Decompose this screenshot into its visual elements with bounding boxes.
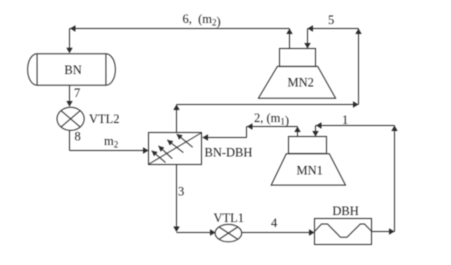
wire stream 4 [242, 232, 315, 234]
wire BN-DBH top riser [176, 105, 178, 133]
separator MN1 [271, 137, 345, 186]
heat-exchanger BN-DBH [149, 133, 253, 165]
wire stream 5 horizontal [308, 28, 359, 30]
wire stream 5 drop into MN2 [307, 29, 309, 49]
svg-text:BN-DBH: BN-DBH [205, 146, 253, 160]
svg-text:8: 8 [75, 130, 81, 144]
wire stream 1 riser [394, 126, 396, 232]
wire MN1 vapor riser [297, 127, 299, 137]
wire stream 5 riser [358, 29, 360, 105]
valve VTL2 [57, 107, 120, 130]
svg-text:6, (m2): 6, (m2) [183, 12, 221, 29]
svg-text:4: 4 [271, 216, 278, 230]
wire stream 2 into BN-DBH [203, 137, 247, 139]
wire stream 1 drop into MN1 [315, 126, 317, 137]
heater DBH [314, 204, 372, 245]
svg-text:VTL2: VTL2 [89, 112, 120, 126]
vessel BN [28, 54, 116, 85]
wire BN-DBH overhead line [177, 104, 359, 106]
valve VTL1 [214, 211, 245, 242]
svg-text:BN: BN [64, 63, 81, 77]
wire stream 2 horizontal upper [247, 126, 298, 128]
svg-text:VTL1: VTL1 [214, 211, 245, 225]
wire stream 2 step [246, 127, 248, 138]
svg-text:5: 5 [328, 13, 334, 27]
svg-text:MN1: MN1 [297, 164, 323, 178]
svg-text:7: 7 [74, 86, 80, 100]
svg-text:m2: m2 [104, 134, 118, 150]
svg-text:1: 1 [342, 113, 348, 127]
wire MN2 vapor outlet riser [289, 29, 291, 49]
wire stream 3 drop [176, 165, 178, 232]
wire stream 6 drop to BN [69, 29, 71, 53]
wire stream 3 horizontal [177, 232, 216, 234]
separator MN2 [258, 49, 335, 99]
svg-text:2, (m1): 2, (m1) [254, 111, 289, 128]
wire DBH outlet [372, 231, 395, 233]
wire stream 7 [69, 86, 71, 107]
wire stream 8 drop [69, 131, 71, 151]
svg-text:3: 3 [178, 185, 184, 199]
wire stream 8 horizontal m2 [70, 150, 149, 152]
svg-text:DBH: DBH [332, 204, 358, 218]
svg-text:MN2: MN2 [288, 76, 314, 90]
wire stream 6 top horizontal [70, 28, 290, 30]
wire stream 1 horizontal [316, 125, 395, 127]
